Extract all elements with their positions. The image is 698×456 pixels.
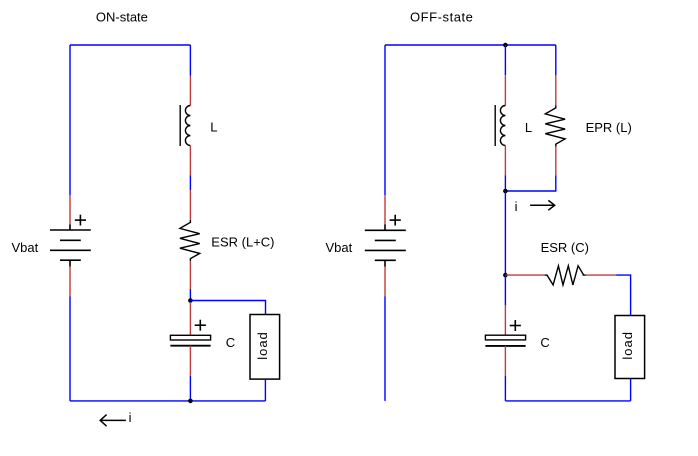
- inductor L (left) top lead: [189, 76, 191, 106]
- svg-text:C: C: [540, 335, 549, 350]
- wire between L and ESR: [189, 176, 191, 191]
- inductor L (right) bottom lead: [504, 146, 506, 176]
- capacitor C (right): [485, 335, 525, 346]
- current arrow i (right): [530, 200, 555, 210]
- capacitor C (left) bottom lead: [189, 346, 191, 376]
- svg-text:i: i: [129, 410, 132, 425]
- resistor ESR (L+C): [180, 220, 200, 261]
- svg-text:load: load: [620, 331, 635, 360]
- svg-text:ESR (C): ESR (C): [541, 240, 589, 255]
- current arrow i (left): [100, 415, 126, 427]
- wire left vertical to battery (right): [384, 45, 386, 195]
- capacitor C (left) plus sign: [195, 320, 206, 331]
- wire left vertical (top) to battery: [69, 45, 71, 195]
- load box (left): [250, 315, 280, 380]
- wire left vertical (bottom): [69, 297, 71, 401]
- wire node to capacitor (right): [504, 275, 506, 305]
- battery Vbat (right): [365, 225, 406, 267]
- resistor EPR (L) top lead: [555, 75, 557, 105]
- wire ESR to node: [189, 289, 191, 301]
- resistor EPR (L) bottom lead: [555, 147, 557, 176]
- wire capacitor to bottom wire (right): [504, 376, 506, 401]
- capacitor C (right) plus sign: [510, 320, 521, 331]
- battery Vbat (left): [50, 225, 91, 267]
- svg-text:load: load: [255, 331, 270, 360]
- svg-text:EPR (L): EPR (L): [586, 120, 632, 135]
- inductor L (right): [495, 105, 505, 146]
- svg-text:Vbat: Vbat: [12, 240, 39, 255]
- resistor ESR (C) right lead: [586, 274, 616, 276]
- capacitor C (right) bottom lead: [504, 346, 506, 376]
- wire EPR bottom to node (right): [505, 175, 555, 191]
- battery Vbat (right) plus sign: [390, 215, 401, 226]
- node junction (left, mid): [188, 298, 193, 303]
- wire inductor branch top (right): [504, 45, 506, 75]
- svg-text:Vbat: Vbat: [326, 240, 353, 255]
- capacitor C (left) top lead: [189, 303, 191, 335]
- battery Vbat (left) plus sign: [75, 215, 86, 226]
- resistor ESR (L+C) bottom lead: [189, 261, 191, 289]
- load box (right): [615, 316, 645, 379]
- svg-text:ESR (L+C): ESR (L+C): [211, 234, 274, 249]
- wire top right circuit: [385, 44, 556, 46]
- capacitor C (right) top lead: [504, 305, 506, 335]
- resistor ESR (L+C) top lead: [189, 190, 191, 220]
- battery Vbat (left) bottom lead: [69, 267, 71, 297]
- wire bottom right circuit: [505, 400, 630, 402]
- node junction (right, mid-upper): [503, 189, 508, 194]
- resistor ESR (C): [545, 266, 586, 285]
- node junction (right, top): [503, 43, 508, 48]
- battery Vbat (right) bottom lead: [384, 267, 386, 297]
- node junction (right, mid-lower): [503, 273, 508, 278]
- wire capacitor to bottom wire: [189, 376, 191, 401]
- wire right branch top (blue): [189, 45, 191, 76]
- wire top left circuit: [70, 44, 190, 46]
- wire bottom left circuit: [70, 400, 265, 402]
- svg-text:ON-state: ON-state: [96, 10, 148, 25]
- inductor L (left): [180, 105, 190, 146]
- inductor L (right) top lead: [504, 75, 506, 105]
- wire node to node (right vertical): [504, 191, 506, 275]
- svg-text:OFF-state: OFF-state: [410, 10, 473, 25]
- wire ESR (C) to load (right): [616, 275, 631, 315]
- battery Vbat (right) top lead: [384, 195, 386, 225]
- wire battery dangling bottom (right): [384, 297, 386, 401]
- wire inductor bottom to node (right): [504, 176, 506, 192]
- resistor EPR (L): [545, 106, 565, 147]
- svg-text:C: C: [226, 335, 235, 350]
- svg-text:L: L: [210, 120, 217, 135]
- resistor ESR (C) left lead: [505, 274, 544, 276]
- svg-text:i: i: [515, 199, 518, 214]
- wire node to load (top): [190, 301, 265, 315]
- node junction (left, bottom): [188, 399, 193, 404]
- capacitor C (left): [170, 335, 210, 345]
- inductor L (left) bottom lead: [189, 146, 191, 176]
- wire EPR branch top corner: [555, 45, 557, 75]
- wire load bottom (left): [264, 379, 266, 401]
- wire load bottom (right): [630, 379, 632, 401]
- battery Vbat (left) top lead: [69, 195, 71, 225]
- svg-text:L: L: [525, 120, 532, 135]
